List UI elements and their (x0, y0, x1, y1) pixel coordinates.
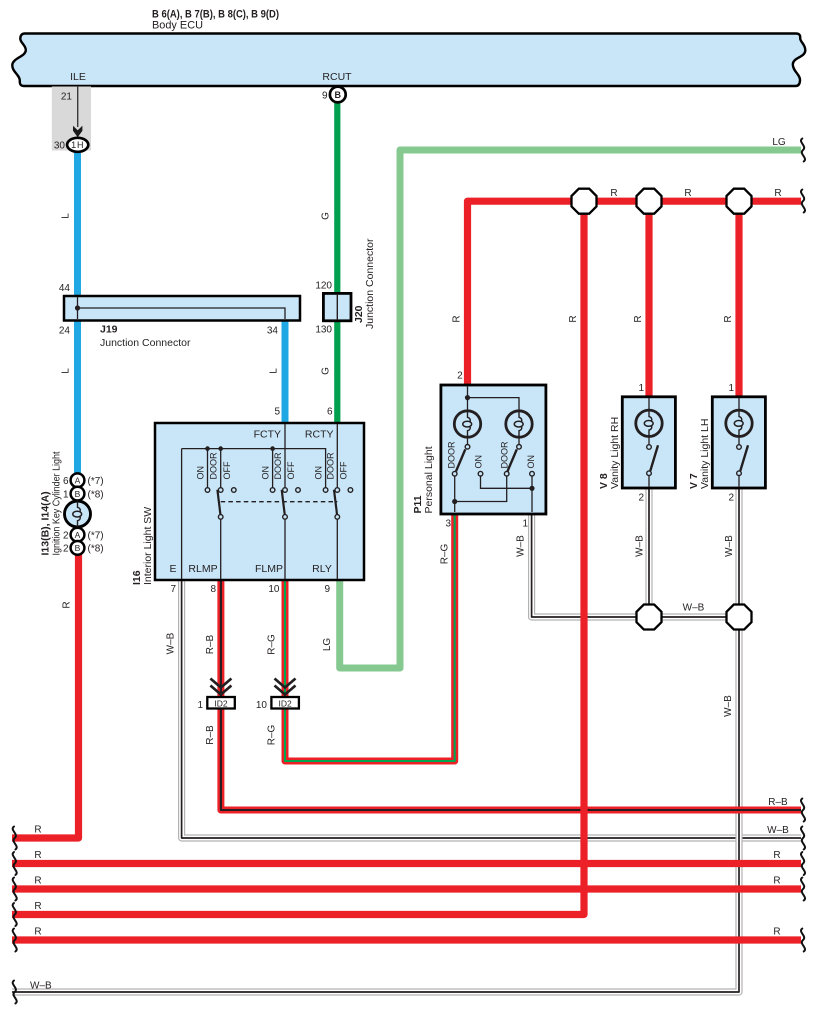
I16 ON DOOR OFF labels switch 3 (314, 452, 349, 480)
svg-text:R–G: R–G (440, 543, 451, 564)
connector ID2 pin 1 (207, 679, 235, 709)
svg-text:R: R (34, 876, 41, 887)
svg-text:W–B: W–B (635, 535, 646, 557)
wire break symbol right y150 (801, 139, 805, 162)
wire R horizontal row 2 (12, 860, 801, 867)
wire W-B from V8 pin 2 to octagon node (645, 486, 652, 617)
svg-text:7: 7 (170, 584, 176, 595)
svg-text:FLMP: FLMP (255, 563, 283, 575)
svg-text:21: 21 (61, 92, 73, 103)
svg-text:(*8): (*8) (88, 544, 104, 555)
svg-text:9: 9 (324, 584, 330, 595)
wire R from ignition key cylinder light to bottom left edge (12, 552, 79, 838)
svg-text:RCUT: RCUT (322, 71, 352, 83)
svg-text:G: G (321, 212, 332, 220)
svg-text:W–B: W–B (683, 603, 705, 614)
wire break symbol left y940 (13, 929, 17, 952)
P11 bulb 2 (506, 411, 532, 437)
svg-text:G: G (321, 367, 332, 375)
svg-text:(*7): (*7) (88, 476, 104, 487)
V7 internal wiring (738, 398, 740, 487)
svg-text:2: 2 (728, 493, 734, 504)
P11 internal wiring (452, 386, 535, 512)
svg-text:1: 1 (63, 489, 69, 500)
svg-text:10: 10 (256, 700, 268, 711)
wire L from J19 pin 34 to I16 pin 5 (FCTY) (282, 319, 289, 424)
svg-text:8: 8 (210, 584, 216, 595)
P11 switch 1 (452, 445, 482, 477)
personal light P11 (441, 385, 546, 514)
I16 ON DOOR OFF labels switch 1 (196, 452, 232, 480)
svg-text:1: 1 (728, 383, 734, 394)
I16 internal wiring (182, 424, 338, 579)
wire G from J20 to I16 pin 6 (RCTY) (334, 319, 340, 424)
interior light switch I16 (155, 423, 364, 580)
junction connector J19 (64, 296, 300, 321)
svg-text:A: A (75, 530, 81, 540)
svg-text:(*8): (*8) (88, 489, 104, 500)
svg-text:9: 9 (322, 91, 328, 102)
svg-text:W–B: W–B (516, 535, 527, 557)
svg-text:130: 130 (315, 325, 332, 336)
wire break symbol left y863 (13, 852, 17, 875)
svg-text:R–B: R–B (205, 634, 216, 654)
connector shading ILE (52, 87, 91, 151)
wire R main feed to P11 pin 2 and right edge (468, 201, 802, 386)
svg-text:DOOR: DOOR (499, 441, 509, 469)
svg-text:OFF: OFF (338, 461, 348, 479)
junction connector J20 (323, 293, 351, 320)
svg-text:L: L (61, 213, 72, 219)
svg-text:Body ECU: Body ECU (152, 19, 203, 31)
svg-text:L: L (269, 368, 280, 374)
svg-text:1H: 1H (71, 140, 84, 150)
node octagon 4 (637, 605, 662, 630)
I13 I14 label (40, 451, 63, 555)
P11 bulb 1 (454, 411, 480, 437)
ignition key cylinder light connector B pin 1 (71, 487, 85, 501)
svg-text:ID2: ID2 (278, 698, 292, 708)
svg-text:(*7): (*7) (88, 530, 104, 541)
node octagon 1 (572, 189, 597, 214)
svg-text:R: R (34, 901, 41, 912)
wire L from J19 pin 24 to ignition key cylinder light (74, 319, 81, 475)
svg-text:W–B: W–B (767, 825, 789, 836)
P11 DOOR ON labels (447, 441, 537, 469)
wire R from octagon node down and left to bottom edge (12, 201, 584, 914)
svg-text:Personal Light: Personal Light (423, 446, 435, 513)
wire R-G from I16 pin 10 (FLMP) through ID2 to P11 pin 3 (285, 512, 455, 761)
svg-text:6: 6 (63, 476, 69, 487)
svg-text:LG: LG (772, 137, 786, 148)
svg-text:R: R (773, 850, 780, 861)
svg-text:R: R (34, 825, 41, 836)
V7 switch (737, 445, 748, 476)
P11 switch 2 (504, 445, 534, 477)
I16 switch 1 contacts (205, 488, 236, 520)
svg-text:R: R (773, 876, 780, 887)
wire R-B from I16 pin 8 (RLMP) through ID2 to right edge (221, 578, 801, 810)
svg-text:R: R (773, 927, 780, 938)
svg-text:10: 10 (268, 584, 280, 595)
svg-text:R–B: R–B (205, 725, 216, 745)
svg-text:6: 6 (327, 407, 333, 418)
svg-text:R: R (452, 315, 463, 322)
svg-text:1: 1 (638, 383, 644, 394)
ignition key cylinder light connector A pin 2 (71, 528, 85, 542)
svg-text:DOOR: DOOR (273, 452, 283, 480)
vanity light RH V8 (622, 397, 675, 488)
svg-text:2: 2 (63, 530, 69, 541)
svg-text:Junction Connector: Junction Connector (100, 337, 191, 349)
svg-text:B: B (75, 489, 81, 499)
svg-text:W–B: W–B (166, 632, 177, 654)
svg-text:DOOR: DOOR (447, 441, 457, 469)
svg-text:3: 3 (445, 519, 451, 530)
svg-text:24: 24 (59, 326, 71, 337)
wire arrow from ILE pin 21 to connector 1H (73, 86, 82, 137)
V8 label (598, 417, 621, 489)
I16 switch 3 contacts (323, 488, 352, 520)
ignition key cylinder light I13/I14 connector A pin 6 (71, 473, 85, 487)
svg-text:W–B: W–B (724, 535, 735, 557)
svg-text:R: R (34, 850, 41, 861)
svg-text:R: R (568, 315, 579, 322)
svg-text:R: R (723, 315, 734, 322)
wire break symbol left y992 (13, 981, 17, 1004)
wire W-B from P11 pin 1 to octagon node (532, 512, 739, 617)
svg-text:R: R (610, 188, 617, 199)
svg-text:ON: ON (526, 455, 536, 469)
wire break symbol left y914 (13, 903, 17, 926)
svg-text:R: R (62, 601, 73, 608)
svg-text:34: 34 (267, 326, 279, 337)
wire G from body ECU RCUT to J20 (334, 100, 340, 295)
wire break symbol right y889 (801, 878, 805, 901)
V8 internal wiring (648, 398, 650, 487)
svg-text:R: R (633, 315, 644, 322)
svg-text:R–B: R–B (768, 797, 788, 808)
svg-text:30: 30 (54, 141, 66, 152)
wire W-B from octagon node down to bottom left edge (12, 617, 739, 992)
wire break symbol right y863 (801, 852, 805, 875)
svg-text:ON: ON (261, 466, 271, 480)
svg-text:ILE: ILE (70, 71, 86, 83)
I16 bottom pin names (169, 563, 331, 575)
svg-text:Vanity Light RH: Vanity Light RH (609, 417, 621, 489)
svg-text:Vanity Light LH: Vanity Light LH (699, 419, 711, 489)
node octagon 2 (637, 189, 662, 214)
svg-text:2: 2 (638, 493, 644, 504)
svg-text:OFF: OFF (286, 461, 296, 479)
svg-text:1: 1 (197, 700, 203, 711)
wire break symbol right y838 (801, 827, 805, 850)
svg-text:5: 5 (274, 407, 280, 418)
I16 FCTY RCTY pin names (254, 429, 334, 441)
svg-text:ON: ON (196, 466, 206, 480)
svg-text:J19: J19 (100, 324, 118, 336)
svg-text:1: 1 (522, 519, 528, 530)
svg-text:R–G: R–G (267, 724, 278, 745)
svg-text:B: B (335, 90, 342, 100)
node octagon 3 (727, 189, 752, 214)
ignition key cylinder light connector B pin 2 (71, 541, 85, 555)
svg-text:2: 2 (63, 544, 69, 555)
svg-text:A: A (75, 476, 81, 486)
svg-text:E: E (169, 563, 176, 575)
svg-text:LG: LG (322, 638, 333, 652)
node octagon 5 (727, 605, 752, 630)
ignition key cylinder light bulb (65, 501, 91, 527)
wire W-B from I16 pin 7 (E) to right edge (182, 578, 801, 838)
svg-text:ON: ON (314, 466, 324, 480)
svg-text:R: R (774, 188, 781, 199)
wire break symbol left y838 (13, 827, 17, 850)
wire R horizontal row 5 (12, 936, 801, 943)
I16 switch 2 contacts (270, 488, 300, 520)
connector ID2 pin 10 (271, 679, 299, 709)
svg-text:B: B (75, 543, 81, 553)
svg-text:Junction Connector: Junction Connector (364, 238, 376, 329)
svg-text:W–B: W–B (723, 695, 734, 717)
wire break symbol left y889 (13, 878, 17, 901)
svg-text:ID2: ID2 (214, 698, 228, 708)
svg-text:R: R (34, 927, 41, 938)
connector 1H (67, 138, 88, 152)
V7 bulb (726, 410, 752, 436)
svg-text:Interior Light SW: Interior Light SW (142, 507, 154, 585)
svg-text:FCTY: FCTY (254, 429, 281, 441)
connector B (330, 87, 346, 103)
svg-text:R–G: R–G (267, 634, 278, 655)
svg-text:ON: ON (474, 455, 484, 469)
P11 label (412, 446, 435, 513)
wire W-B from V7 pin 2 to octagon node (735, 486, 742, 617)
svg-text:44: 44 (59, 283, 71, 294)
svg-text:2: 2 (457, 371, 463, 382)
svg-text:120: 120 (315, 281, 332, 292)
wire R from octagon node to V8 pin 1 (645, 201, 652, 398)
wire break symbol right y810 (801, 799, 805, 822)
wire break symbol right y201 (801, 190, 805, 213)
svg-text:DOOR: DOOR (209, 452, 219, 480)
svg-text:RLY: RLY (312, 563, 332, 575)
svg-text:RLMP: RLMP (188, 563, 217, 575)
wire R from octagon node to V7 pin 1 (735, 201, 742, 398)
wire break symbol right y940 (801, 929, 805, 952)
wire LG from I16 pin 9 (RLY) to right edge (340, 150, 801, 668)
svg-text:DOOR: DOOR (325, 452, 335, 480)
wire L from connector 1H to J19 pin 44 (74, 150, 81, 297)
V7 label (688, 419, 711, 489)
vanity light LH V7 (712, 397, 765, 488)
Body ECU band (12, 34, 805, 87)
J19 label (100, 324, 191, 350)
V8 switch (647, 445, 658, 476)
wire R horizontal row 3 (12, 885, 801, 892)
I16 label (131, 507, 154, 585)
svg-text:Ignition Key Cylinder Light: Ignition Key Cylinder Light (51, 451, 63, 555)
svg-text:OFF: OFF (222, 461, 232, 479)
V8 bulb (636, 410, 662, 436)
svg-text:W–B: W–B (30, 981, 52, 992)
svg-text:RCTY: RCTY (305, 429, 334, 441)
I16 ON DOOR OFF labels switch 2 (261, 452, 296, 480)
svg-text:L: L (61, 368, 72, 374)
svg-text:R: R (684, 188, 691, 199)
J20 label (353, 238, 376, 329)
